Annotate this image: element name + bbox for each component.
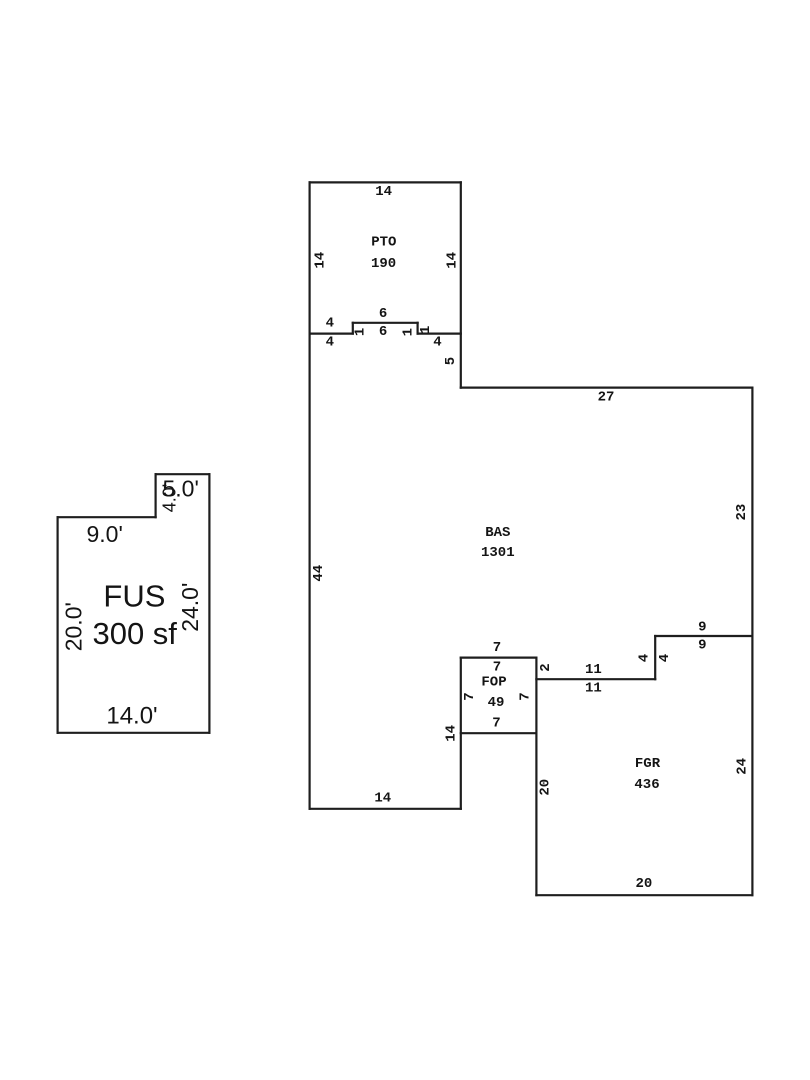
wire FUS notch left wall (4.0) xyxy=(155,474,157,517)
svg-text:7: 7 xyxy=(517,692,533,700)
svg-text:300 sf: 300 sf xyxy=(92,616,177,651)
svg-text:44: 44 xyxy=(311,565,327,582)
svg-text:7: 7 xyxy=(493,660,501,676)
wire FGR bottom wall (20) xyxy=(536,894,752,896)
svg-text:14.0': 14.0' xyxy=(106,703,157,730)
wire bump top (6) xyxy=(353,322,418,324)
svg-text:1: 1 xyxy=(400,328,416,336)
svg-text:7: 7 xyxy=(462,692,478,700)
wire FUS right wall (24.0) xyxy=(208,474,210,733)
wire FGR top left wall (11) xyxy=(536,678,655,680)
svg-text:20: 20 xyxy=(538,779,554,796)
svg-text:190: 190 xyxy=(371,256,396,272)
wire wall x=14ft below FOP (14) xyxy=(460,658,462,809)
wire FUS notch top wall (5.0) xyxy=(156,473,210,475)
wire PTO bottom left piece (4) xyxy=(310,333,353,335)
wire PTO left wall (14) xyxy=(309,182,311,333)
svg-text:BAS: BAS xyxy=(485,525,510,541)
wire FOP top wall (7) xyxy=(461,656,537,658)
wire PTO top wall (14) xyxy=(310,181,461,183)
svg-text:4: 4 xyxy=(637,654,653,662)
svg-text:4.0': 4.0' xyxy=(160,484,180,512)
svg-text:1301: 1301 xyxy=(481,545,515,561)
svg-text:4: 4 xyxy=(433,335,441,351)
wire bump left step (1) xyxy=(352,323,354,334)
svg-text:4: 4 xyxy=(657,654,673,662)
svg-text:9: 9 xyxy=(698,637,706,653)
svg-text:14: 14 xyxy=(375,184,392,200)
svg-text:23: 23 xyxy=(734,504,750,521)
svg-text:1: 1 xyxy=(418,326,434,334)
wire FOP bottom wall (7) xyxy=(461,732,537,734)
svg-text:11: 11 xyxy=(585,662,602,678)
svg-text:6: 6 xyxy=(379,306,387,322)
wire PTO right wall + 5ft segment xyxy=(460,182,462,387)
svg-text:7: 7 xyxy=(492,716,500,732)
svg-text:4: 4 xyxy=(326,334,334,350)
wire BAS bottom wall (14) xyxy=(310,808,461,810)
svg-text:4: 4 xyxy=(326,316,334,332)
svg-text:20.0': 20.0' xyxy=(61,602,87,651)
svg-text:27: 27 xyxy=(598,390,615,406)
wire FGR top right wall (9) xyxy=(655,635,752,637)
wire FGR step wall (4) xyxy=(654,636,656,679)
wire PTO bottom right piece (4) xyxy=(418,333,461,335)
svg-text:FOP: FOP xyxy=(481,675,506,691)
svg-text:5: 5 xyxy=(443,357,459,365)
svg-text:9: 9 xyxy=(698,619,706,635)
svg-text:14: 14 xyxy=(444,725,460,742)
wire BAS top wall (27) xyxy=(461,387,753,389)
svg-text:9.0': 9.0' xyxy=(87,521,123,547)
wire FUS bottom wall (14.0) xyxy=(58,732,210,734)
svg-text:14: 14 xyxy=(312,252,328,269)
wire BAS left wall (44) xyxy=(309,334,311,809)
svg-text:6: 6 xyxy=(379,324,387,340)
wire right outer wall (23+24) xyxy=(751,388,753,896)
wire FUS left wall (20.0) xyxy=(56,517,58,733)
svg-text:14: 14 xyxy=(445,252,461,269)
svg-text:24: 24 xyxy=(734,758,750,775)
svg-text:49: 49 xyxy=(488,695,505,711)
svg-text:7: 7 xyxy=(493,640,501,656)
svg-text:11: 11 xyxy=(585,680,602,696)
svg-text:FUS: FUS xyxy=(103,579,165,614)
svg-text:20: 20 xyxy=(635,876,652,892)
wire FUS top wall (9.0) xyxy=(58,516,156,518)
svg-text:14: 14 xyxy=(374,790,391,806)
svg-text:24.0': 24.0' xyxy=(177,583,203,632)
wire bump right step (1) xyxy=(417,323,419,334)
svg-text:PTO: PTO xyxy=(371,235,396,251)
svg-text:2: 2 xyxy=(538,663,554,671)
svg-text:1: 1 xyxy=(352,328,368,336)
svg-text:FGR: FGR xyxy=(635,756,661,772)
svg-text:436: 436 xyxy=(634,777,659,793)
wire FGR left wall (2+20) xyxy=(535,658,537,896)
